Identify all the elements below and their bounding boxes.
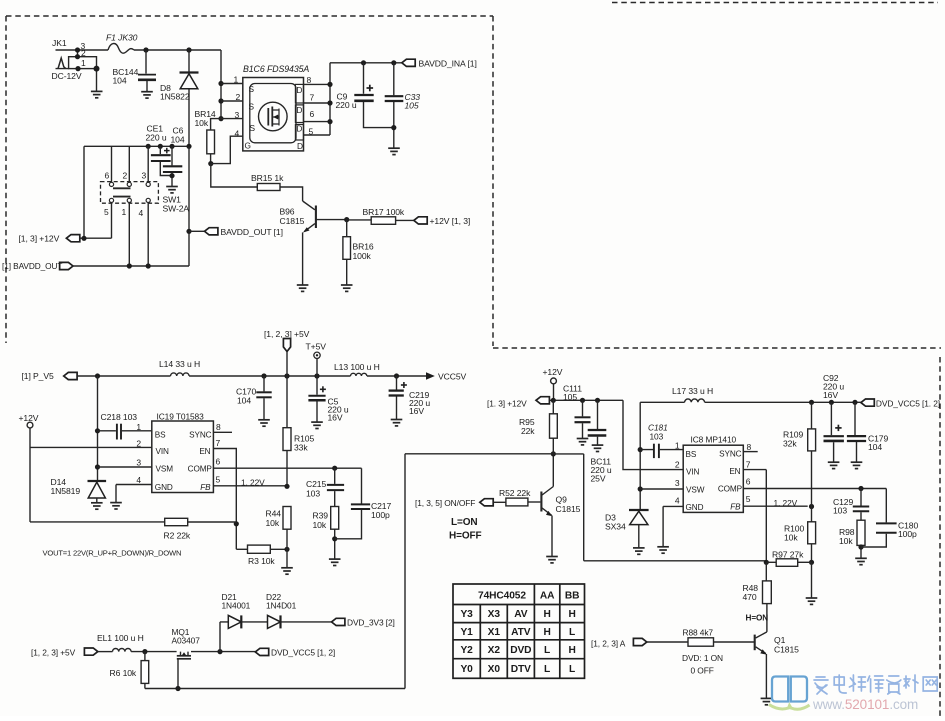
svg-text:3: 3 <box>136 458 141 468</box>
svg-text:L17 33 u H: L17 33 u H <box>672 386 713 396</box>
transistor Q B96 C1815 <box>280 201 350 285</box>
wire VIN from +12V <box>30 446 152 448</box>
node DVD_VCC5 [1.2] right <box>861 399 940 409</box>
node DVD_VCC5 [1,2] bottom <box>255 647 335 657</box>
ground C170 <box>258 420 270 426</box>
svg-text:ATV: ATV <box>511 627 531 638</box>
resistor BR15 1k <box>251 173 303 201</box>
node [1.3] +12V tag right <box>487 397 549 409</box>
svg-text:104: 104 <box>237 396 251 406</box>
svg-text:X1: X1 <box>488 627 501 638</box>
svg-text:+12V: +12V <box>19 413 39 423</box>
svg-text:BR17 100k: BR17 100k <box>363 207 405 217</box>
svg-text:16V: 16V <box>328 413 343 423</box>
ground D14 <box>91 503 103 509</box>
node BAVDD_OUT [1] mid <box>189 227 283 237</box>
svg-text:L13 100 u H: L13 100 u H <box>334 362 380 372</box>
svg-text:10k: 10k <box>839 536 853 546</box>
svg-text:G: G <box>245 141 251 151</box>
connector JK1 <box>52 38 222 119</box>
resistor BR16 100k <box>343 220 374 285</box>
node VCC5V arrow <box>426 372 467 382</box>
capacitor C217 100p <box>335 501 392 539</box>
wire MQ1 drain to DVD_VCC5 <box>191 651 255 653</box>
node Q9 collector junction <box>551 451 556 456</box>
svg-text:[1, 3] +12V: [1, 3] +12V <box>19 234 60 244</box>
wire VSW pin3 <box>640 488 683 490</box>
svg-text:SW-2A: SW-2A <box>163 204 190 214</box>
resistor R100 10k <box>784 522 816 565</box>
svg-text:Y2: Y2 <box>460 645 473 656</box>
svg-text:D: D <box>296 85 302 95</box>
table 74HC4052 <box>453 584 585 678</box>
svg-text:L: L <box>544 645 550 656</box>
wire EN net IC8 <box>743 470 766 563</box>
resistor R52 22k <box>499 488 540 506</box>
node +12V [1,3] right of BR17 <box>414 216 470 226</box>
svg-text:www.520101.com: www.520101.com <box>812 697 918 712</box>
svg-text:6: 6 <box>746 477 751 487</box>
svg-text:1: 1 <box>675 441 680 451</box>
svg-text:10k: 10k <box>195 118 209 128</box>
node +12V terminal right <box>543 367 563 400</box>
svg-text:DTV: DTV <box>511 664 531 675</box>
wire gate node to BR15 <box>211 164 257 187</box>
svg-text:D: D <box>297 141 303 151</box>
wire FB net IC19 <box>213 485 287 487</box>
svg-text:DVD_VCC5 [1, 2]: DVD_VCC5 [1, 2] <box>271 647 335 657</box>
svg-text:3: 3 <box>235 110 240 120</box>
svg-text:Y3: Y3 <box>460 609 473 620</box>
svg-text:1. 22V: 1. 22V <box>241 478 265 488</box>
svg-text:[1. 3] +12V: [1. 3] +12V <box>487 399 527 409</box>
svg-text:DVD: 1 ON: DVD: 1 ON <box>682 653 723 663</box>
ground R39 <box>329 559 341 565</box>
wire IC8 GND pin4 <box>663 506 683 546</box>
wire +12V rail right <box>549 400 683 469</box>
svg-text:25V: 25V <box>591 474 606 484</box>
diode D14 1N5819 <box>51 477 107 503</box>
wire EN net IC19 <box>213 449 236 550</box>
svg-text:105: 105 <box>405 101 419 111</box>
diode D3 SX34 <box>605 510 649 548</box>
ground C111 <box>577 439 589 445</box>
capacitor C6 104 <box>163 126 185 187</box>
svg-text:1N5819: 1N5819 <box>51 486 81 496</box>
svg-text:R88 4k7: R88 4k7 <box>683 628 714 638</box>
inductor EL1 100uH <box>97 633 144 652</box>
svg-text:6: 6 <box>310 109 315 119</box>
svg-text:3: 3 <box>675 478 680 488</box>
svg-text:T+5V: T+5V <box>306 342 327 352</box>
wire VSM pin3 <box>98 466 152 468</box>
ground BC144 <box>141 92 153 98</box>
inductor L13 100uH <box>334 362 380 376</box>
svg-text:IC19 T01583: IC19 T01583 <box>157 412 205 422</box>
wire drain pins to output node <box>304 63 331 135</box>
svg-text:X0: X0 <box>488 664 501 675</box>
svg-text:Y1: Y1 <box>460 627 473 638</box>
svg-text:X3: X3 <box>488 609 501 620</box>
svg-text:7: 7 <box>310 93 315 103</box>
dashed page border top-left box <box>6 16 493 346</box>
wire BAVDD rail <box>84 145 189 147</box>
svg-text:BB: BB <box>565 591 580 602</box>
svg-text:6: 6 <box>105 171 110 181</box>
svg-text:L14 33 u H: L14 33 u H <box>159 359 200 369</box>
ground R98 <box>855 558 867 564</box>
svg-text:2: 2 <box>236 92 241 102</box>
op-amp U2: regulator IC19 T01583 <box>136 412 221 493</box>
svg-text:7: 7 <box>746 460 751 470</box>
svg-text:Q1: Q1 <box>774 635 786 645</box>
ground R44/R3 <box>281 568 293 574</box>
ground D3 <box>633 548 645 554</box>
svg-text:[1, 2, 3] +5V: [1, 2, 3] +5V <box>31 648 76 658</box>
svg-text:100p: 100p <box>371 510 390 520</box>
svg-text:4: 4 <box>139 208 144 218</box>
ground C33 <box>388 148 400 154</box>
svg-text:FB: FB <box>730 503 741 512</box>
svg-text:100p: 100p <box>898 529 917 539</box>
svg-text:H: H <box>568 609 575 620</box>
svg-text:10k: 10k <box>313 520 327 530</box>
wire +5V rail <box>77 375 426 377</box>
svg-text:2: 2 <box>136 439 141 449</box>
dashed border right edge <box>939 357 941 716</box>
svg-text:DVD_3V3 [2]: DVD_3V3 [2] <box>347 617 395 627</box>
svg-text:Q9: Q9 <box>556 495 568 505</box>
svg-text:16V: 16V <box>409 406 424 416</box>
svg-text:VSW: VSW <box>686 485 705 494</box>
capacitor C218 103 <box>98 412 152 440</box>
svg-text:VIN: VIN <box>156 447 170 456</box>
capacitor C33 105 <box>385 63 421 148</box>
svg-text:1. 22V: 1. 22V <box>774 498 798 508</box>
op-amp U1: MOSFET IC B1C6 FDS9435A <box>234 64 315 151</box>
svg-text:74HC4052: 74HC4052 <box>478 591 526 602</box>
svg-text:C218 103: C218 103 <box>101 412 138 422</box>
svg-text:VCC5V: VCC5V <box>438 372 467 382</box>
node [1,2,3] +5V tag <box>264 329 310 376</box>
svg-text:0 OFF: 0 OFF <box>691 666 714 676</box>
svg-text:SYNC: SYNC <box>719 450 742 459</box>
svg-text:+12V: +12V <box>543 367 563 377</box>
wire VSW node vertical <box>639 402 641 509</box>
svg-text:R39: R39 <box>313 511 329 521</box>
svg-text:4: 4 <box>136 475 141 485</box>
fuse F1 JK30 <box>106 33 138 54</box>
wire up to diodes <box>220 622 228 652</box>
node [1] BAVDD_OUT left <box>2 261 189 271</box>
svg-text:103: 103 <box>833 506 847 516</box>
svg-text:10k: 10k <box>266 518 280 528</box>
wire COMP net IC8 <box>743 488 886 490</box>
ground IC8 <box>657 547 669 553</box>
svg-text:22k: 22k <box>521 426 535 436</box>
svg-text:EN: EN <box>729 467 740 476</box>
svg-text:10k: 10k <box>784 533 798 543</box>
svg-text:JK1: JK1 <box>52 38 67 48</box>
ground Q9 <box>546 557 558 563</box>
svg-text:8: 8 <box>216 422 221 432</box>
ground C5 <box>311 422 323 428</box>
svg-text:1N4D01: 1N4D01 <box>266 601 297 611</box>
capacitor C180 100p <box>861 489 918 548</box>
ground C219 <box>391 420 403 426</box>
svg-text:Y0: Y0 <box>460 664 473 675</box>
svg-text:103: 103 <box>306 489 320 499</box>
capacitor C9 220u <box>336 63 394 128</box>
svg-text:BR16: BR16 <box>353 242 374 252</box>
svg-text:+12V [1, 3]: +12V [1, 3] <box>430 216 471 226</box>
svg-text:470: 470 <box>743 592 757 602</box>
svg-text:100k: 100k <box>353 251 372 261</box>
svg-text:16V: 16V <box>823 390 838 400</box>
svg-text:8: 8 <box>307 75 312 85</box>
inductor L17 33uH <box>640 386 861 402</box>
ground C92 <box>828 462 840 468</box>
ground B96 emitter <box>297 285 309 291</box>
wire D8 node down <box>188 146 190 266</box>
svg-text:C1815: C1815 <box>774 645 799 655</box>
capacitor C129 103 <box>833 489 869 521</box>
svg-text:VSM: VSM <box>156 464 174 473</box>
capacitor BC144 104 <box>113 47 157 91</box>
svg-text:5: 5 <box>216 475 221 485</box>
svg-text:3: 3 <box>142 171 147 181</box>
ground IC19 <box>110 503 122 509</box>
svg-text:SX34: SX34 <box>605 522 626 532</box>
svg-text:EN: EN <box>199 447 210 456</box>
node [1] P_V5 <box>22 371 78 381</box>
svg-text:S: S <box>249 102 255 112</box>
resistor BR17 100k <box>347 207 414 224</box>
svg-text:105: 105 <box>563 392 577 402</box>
svg-text:L: L <box>569 664 575 675</box>
svg-text:H: H <box>543 627 550 638</box>
wire EN control routing left to MQ1 gate line <box>405 453 553 455</box>
wire SYNC stub IC8 <box>743 451 757 453</box>
svg-text:4: 4 <box>235 129 240 139</box>
resistor R98 10k <box>839 520 865 558</box>
resistor R97 27k <box>766 550 811 567</box>
ground Q1 <box>761 698 773 704</box>
svg-text:1: 1 <box>136 422 141 432</box>
svg-text:BAVDD_INA [1]: BAVDD_INA [1] <box>419 58 477 68</box>
svg-text:104: 104 <box>113 76 127 86</box>
svg-text:[1] BAVDD_OUT: [1] BAVDD_OUT <box>2 261 62 271</box>
capacitor C179 104 <box>847 402 889 462</box>
svg-text:2: 2 <box>675 460 680 470</box>
svg-text:BS: BS <box>155 431 166 440</box>
svg-text:[1, 2, 3] +5V: [1, 2, 3] +5V <box>264 329 310 339</box>
svg-text:BAVDD_OUT [1]: BAVDD_OUT [1] <box>221 227 283 237</box>
capacitor BC11 220u 25V <box>588 400 612 483</box>
wire SYNC stub IC19 <box>213 431 232 433</box>
svg-text:R97 27k: R97 27k <box>772 550 804 560</box>
svg-text:R6 10k: R6 10k <box>110 668 137 678</box>
ground BR16 <box>341 285 353 291</box>
svg-text:R52 22k: R52 22k <box>499 488 531 498</box>
svg-text:F1 JK30: F1 JK30 <box>106 33 138 43</box>
transistor MQ1 AO3407 P-MOSFET <box>172 627 201 689</box>
svg-text:104: 104 <box>171 135 185 145</box>
svg-text:BS: BS <box>686 450 697 459</box>
svg-text:[1, 3, 5] ON/OFF: [1, 3, 5] ON/OFF <box>415 498 475 508</box>
wire FB net IC8 <box>743 505 807 507</box>
wire left box down <box>83 146 85 238</box>
wire EN control routing right <box>553 454 766 561</box>
svg-text:COMP: COMP <box>718 485 743 494</box>
wire gate control bottom run <box>145 454 405 689</box>
node [1,2,3] A tag <box>591 638 647 648</box>
svg-text:GND: GND <box>686 503 704 512</box>
svg-text:1: 1 <box>81 58 86 68</box>
svg-text:DVD: DVD <box>510 645 531 656</box>
watermark logo book icon <box>772 677 807 702</box>
ground BC11 <box>592 445 604 451</box>
transistor Q9 C1815 <box>541 454 580 556</box>
node ON/OFF [1,3,5] <box>415 498 506 508</box>
svg-text:2: 2 <box>123 171 128 181</box>
svg-text:32k: 32k <box>783 439 797 449</box>
svg-text:5: 5 <box>104 207 109 217</box>
svg-text:X2: X2 <box>488 645 501 656</box>
resistor R95 22k <box>519 400 557 454</box>
op-amp U3: regulator IC8 MP1410 <box>675 435 752 513</box>
svg-text:DC-12V: DC-12V <box>52 71 82 81</box>
svg-text:4: 4 <box>675 496 680 506</box>
diode D8 1N5822 <box>160 47 199 146</box>
capacitor C111 105 <box>563 384 591 439</box>
wire IC19 GND pin4 <box>116 485 152 503</box>
svg-text:L: L <box>569 627 575 638</box>
svg-text:D: D <box>296 105 302 115</box>
svg-text:VIN: VIN <box>686 468 700 477</box>
svg-text:33k: 33k <box>294 443 308 453</box>
node BAVDD_INA [1] <box>402 58 477 68</box>
resistor R44 10k <box>266 507 292 568</box>
svg-text:R44: R44 <box>266 509 282 519</box>
svg-text:8: 8 <box>747 442 752 452</box>
svg-text:[1] P_V5: [1] P_V5 <box>22 371 54 381</box>
capacitor C219 220u 16V <box>389 376 431 419</box>
svg-text:AV: AV <box>514 609 528 620</box>
svg-text:FB: FB <box>200 483 211 492</box>
svg-text:L: L <box>544 664 550 675</box>
capacitor C181 103 <box>640 423 683 459</box>
svg-text:C215: C215 <box>306 479 326 489</box>
svg-text:1N4001: 1N4001 <box>222 601 251 611</box>
diode D22 1N4D01 <box>266 592 297 628</box>
svg-text:7: 7 <box>216 438 221 448</box>
wire P_V5 vertical <box>97 376 99 481</box>
svg-text:104: 104 <box>868 442 882 452</box>
svg-text:SYNC: SYNC <box>189 431 212 440</box>
test point T+5V <box>306 342 327 377</box>
svg-text:C1815: C1815 <box>280 216 305 226</box>
svg-text:2: 2 <box>81 48 86 58</box>
node [1,3] +12V left <box>19 234 112 244</box>
svg-text:IC8 MP1410: IC8 MP1410 <box>691 435 737 445</box>
svg-text:C1815: C1815 <box>556 504 581 514</box>
capacitor C215 103 <box>306 468 344 506</box>
resistor R48 470 <box>743 562 772 632</box>
svg-text:6: 6 <box>216 457 221 467</box>
svg-text:AA: AA <box>540 591 555 602</box>
ground JK1 <box>91 91 103 97</box>
svg-text:R3 10k: R3 10k <box>248 556 275 566</box>
diode D21 1N4001 <box>222 592 251 628</box>
node [1,2,3] +5V bottom <box>31 648 113 658</box>
svg-text:L=ON: L=ON <box>451 517 478 528</box>
capacitor C92 220u 16V <box>823 373 844 462</box>
svg-text:EL1 100 u H: EL1 100 u H <box>97 633 144 643</box>
svg-text:220 u: 220 u <box>336 100 357 110</box>
svg-text:COMP: COMP <box>188 464 213 473</box>
ground C179 <box>851 462 863 468</box>
svg-text:VOUT=1 22V(R_UP+R_DOWN)/R_DOW: VOUT=1 22V(R_UP+R_DOWN)/R_DOWN <box>43 549 182 558</box>
svg-text:1N5822: 1N5822 <box>160 92 190 102</box>
svg-text:R2 22k: R2 22k <box>164 531 191 541</box>
capacitor C170 104 <box>236 376 272 420</box>
switch SW1 SW-2A <box>101 146 190 266</box>
svg-text:103: 103 <box>650 432 664 442</box>
resistor R39 10k <box>313 507 339 559</box>
resistor R105 33k <box>283 376 314 486</box>
svg-text:D: D <box>296 124 302 134</box>
svg-text:DVD_VCC5 [1. 2]: DVD_VCC5 [1. 2] <box>876 399 940 409</box>
dashed border horizontal mid-right <box>493 347 941 349</box>
svg-text:220 u: 220 u <box>146 133 167 143</box>
resistor R88 4k7 <box>647 628 714 647</box>
svg-text:BR15 1k: BR15 1k <box>251 173 284 183</box>
svg-text:5: 5 <box>746 494 751 504</box>
node +12V terminal <box>19 413 39 522</box>
svg-text:1: 1 <box>234 75 239 85</box>
svg-text:H: H <box>543 609 550 620</box>
resistor R2 22k <box>30 518 236 540</box>
resistor R3 10k <box>236 545 289 566</box>
svg-text:B96: B96 <box>280 207 295 217</box>
transistor Q1 C1815 <box>714 632 800 698</box>
svg-text:[1, 2, 3] A: [1, 2, 3] A <box>591 639 626 649</box>
watermark chinese text <box>814 675 937 694</box>
wire COMP net IC19 <box>213 468 361 503</box>
resistor R6 10k <box>110 652 149 689</box>
svg-text:S: S <box>249 84 255 94</box>
capacitor CE1 220u <box>146 124 173 176</box>
dashed border top-right <box>612 2 938 4</box>
svg-text:H=ON: H=ON <box>746 614 769 623</box>
svg-text:S: S <box>250 123 256 133</box>
watermark url <box>812 697 918 712</box>
resistor R109 32k <box>783 402 816 522</box>
svg-text:GND: GND <box>155 483 173 492</box>
capacitor C5 220u 16V <box>308 376 348 423</box>
node DVD_3V3 [2] <box>332 617 395 627</box>
ground R97 right <box>811 562 813 598</box>
resistor BR14 10k <box>195 81 243 166</box>
wire output top rail <box>330 62 402 64</box>
svg-text:A03407: A03407 <box>172 636 201 646</box>
ground CE1/C6 <box>166 187 178 193</box>
wire pin4 G route <box>211 136 243 163</box>
inductor L14 33uH <box>159 359 200 376</box>
svg-text:B1C6 FDS9435A: B1C6 FDS9435A <box>243 64 309 74</box>
svg-text:H=OFF: H=OFF <box>449 531 482 542</box>
